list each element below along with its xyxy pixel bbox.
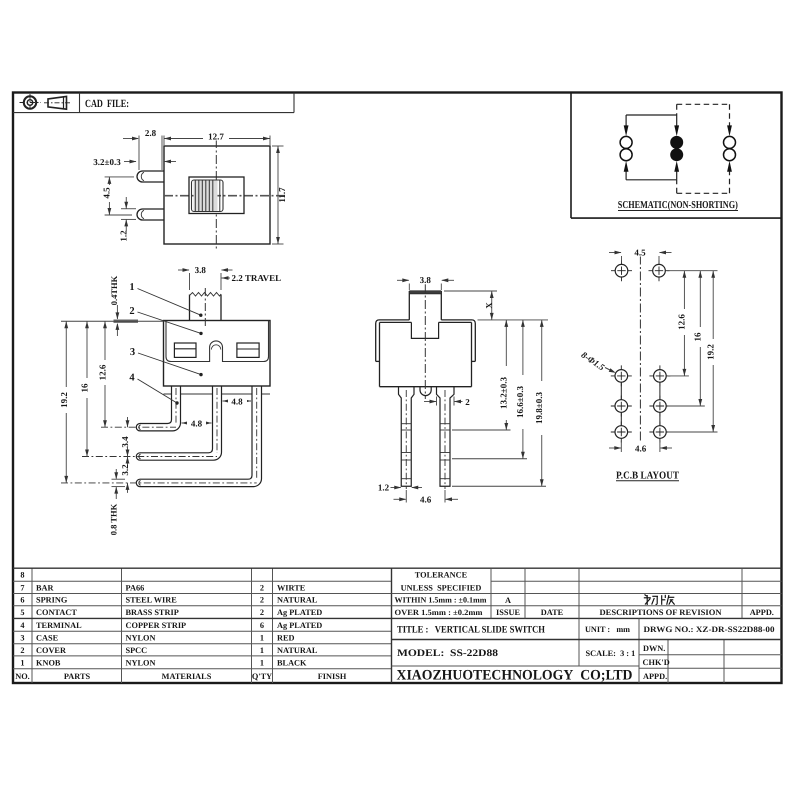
dimension 11.7: [272, 146, 284, 244]
svg-text:19.8±0.3: 19.8±0.3: [534, 392, 544, 424]
dimension 4.6 (front): [394, 490, 459, 503]
dimension 19.8±0.3: [541, 320, 543, 486]
left dims top extension line: [61, 320, 164, 322]
svg-text:2: 2: [129, 306, 134, 317]
top view lower terminal: [137, 209, 164, 220]
dimension 1.2 (top view): [121, 197, 136, 231]
svg-text:PARTS: PARTS: [64, 672, 91, 681]
svg-text:1.2: 1.2: [118, 230, 128, 242]
svg-text:2: 2: [260, 596, 264, 605]
svg-text:SCALE: 3 : 1: SCALE: 3 : 1: [586, 649, 636, 658]
front view inner body: [380, 322, 472, 386]
dimension 19.2 (pcb): [712, 271, 714, 432]
svg-text:1: 1: [260, 658, 264, 667]
parts table column NO: [15, 571, 30, 681]
svg-text:1: 1: [129, 282, 134, 293]
svg-text:4: 4: [129, 373, 135, 384]
svg-text:4: 4: [20, 621, 24, 630]
svg-text:TOLERANCE: TOLERANCE: [415, 571, 468, 580]
dimension 12.6 (side): [104, 321, 106, 427]
top view knob outer: [189, 177, 244, 214]
parts table column FINISH: [277, 583, 347, 680]
schematic arrows: [624, 125, 732, 171]
svg-text:NYLON: NYLON: [126, 634, 156, 643]
pcb hole D2: [649, 422, 670, 443]
third-angle projection symbol: cone: [44, 96, 72, 109]
svg-text:COPPER STRIP: COPPER STRIP: [126, 621, 187, 630]
body-top extension line (front): [478, 319, 549, 321]
schematic enclosure: [571, 93, 782, 219]
svg-text:NYLON: NYLON: [126, 658, 156, 667]
pcb hole A1: [611, 260, 632, 281]
svg-text:3.8: 3.8: [195, 265, 207, 275]
svg-text:TITLE : VERTICAL SLIDE SWITC: TITLE : VERTICAL SLIDE SWITCH: [397, 625, 545, 636]
svg-text:2.8: 2.8: [145, 128, 157, 138]
top view knob serrations: [195, 181, 220, 212]
svg-text:13.2±0.3: 13.2±0.3: [499, 377, 509, 409]
right pin bend marks: [440, 424, 450, 479]
dimension 2.2 TRAVEL: [222, 277, 231, 279]
svg-text:3.2: 3.2: [120, 464, 130, 476]
svg-text:A: A: [505, 596, 511, 605]
dimension 16 (pcb): [699, 271, 701, 406]
svg-text:11.7: 11.7: [277, 187, 287, 203]
svg-text:BLACK: BLACK: [277, 658, 307, 667]
top view horizontal centerline: [164, 195, 285, 197]
top view knob hatch fill: [194, 181, 218, 212]
svg-text:OVER 1.5mm : ±0.2mm: OVER 1.5mm : ±0.2mm: [395, 608, 483, 617]
svg-text:1: 1: [260, 634, 264, 643]
svg-text:4.8: 4.8: [231, 397, 243, 407]
front view right pin: [437, 387, 455, 487]
pcb hole C1: [611, 396, 632, 417]
dimension 2 (front pin width): [424, 397, 463, 406]
svg-text:STEEL WIRE: STEEL WIRE: [126, 596, 178, 605]
svg-text:12.6: 12.6: [97, 364, 107, 380]
svg-text:APPD.: APPD.: [750, 608, 774, 617]
svg-text:4.5: 4.5: [101, 187, 111, 199]
front view centerline: [424, 284, 426, 399]
svg-text:3: 3: [20, 634, 24, 643]
svg-text:12.6: 12.6: [677, 314, 687, 330]
side view cover inner outline: [166, 321, 269, 362]
svg-text:UNIT : mm: UNIT : mm: [585, 625, 630, 634]
pcb hole B2: [649, 365, 670, 386]
svg-text:WIRTE: WIRTE: [277, 583, 306, 592]
dimension 4.8 (upper, legs 2-3): [223, 400, 252, 402]
top view upper terminal: [137, 171, 164, 182]
parts table column MATERIALS: [126, 583, 212, 680]
top view knob inner: [192, 180, 224, 212]
初版 revision glyphs: [644, 595, 675, 606]
svg-text:WITHIN 1.5mm : ±0.1mm: WITHIN 1.5mm : ±0.1mm: [395, 596, 487, 605]
svg-text:3.8: 3.8: [420, 275, 432, 285]
svg-text:SPRING: SPRING: [36, 596, 68, 605]
svg-text:BRASS STRIP: BRASS STRIP: [126, 608, 179, 617]
svg-text:1: 1: [260, 646, 264, 655]
svg-text:3.2±0.3: 3.2±0.3: [93, 157, 121, 167]
schematic contact pair middle (closed): [670, 136, 683, 149]
svg-text:CHK'D: CHK'D: [643, 658, 670, 667]
side view terminal 2 (bends left, middle): [136, 386, 221, 460]
svg-text:APPD.: APPD.: [643, 672, 667, 681]
front view middle pin stub: [420, 387, 431, 396]
front view cover outer shell: [376, 320, 476, 362]
svg-text:COVER: COVER: [36, 646, 67, 655]
svg-text:6: 6: [260, 621, 264, 630]
dimension 4.8 (lower, legs 1-2): [182, 422, 212, 424]
pcb centerline: [639, 256, 641, 445]
svg-text:UNLESS SPECIFIED: UNLESS SPECIFIED: [401, 584, 482, 593]
svg-text:4.8: 4.8: [191, 419, 203, 429]
svg-text:NATURAL: NATURAL: [277, 646, 318, 655]
pcb hole C2: [649, 396, 670, 417]
dimension 12.6 (pcb): [683, 271, 685, 376]
svg-text:19.2: 19.2: [59, 392, 69, 408]
cover tab thick bar (0.4THK): [114, 320, 139, 323]
parts table column PARTS: [36, 583, 91, 680]
svg-text:DESCRIPTIONS OF REVISION: DESCRIPTIONS OF REVISION: [600, 608, 722, 617]
left pin bend marks: [401, 424, 411, 479]
schematic contact pair left (open): [620, 136, 632, 148]
side view body: [164, 321, 271, 387]
svg-text:16: 16: [79, 383, 89, 393]
svg-text:SPCC: SPCC: [126, 646, 148, 655]
svg-text:1: 1: [20, 658, 24, 667]
dimension 3.4 (side): [127, 417, 129, 467]
dimension 16.6±0.3: [522, 320, 524, 459]
terminal 2 centerlines: [216, 388, 218, 453]
svg-text:4.6: 4.6: [635, 443, 647, 453]
svg-text:BAR: BAR: [36, 583, 55, 592]
schematic solid net (left-middle): [626, 115, 677, 180]
svg-text:4.6: 4.6: [420, 494, 432, 504]
svg-text:CASE: CASE: [36, 634, 59, 643]
svg-text:1.2: 1.2: [378, 483, 390, 493]
dimension X: [444, 291, 497, 320]
dimension 19.2 (side): [65, 321, 67, 483]
side view stem centerline: [204, 288, 206, 327]
svg-text:3.4: 3.4: [120, 436, 130, 448]
svg-text:4.5: 4.5: [634, 248, 646, 258]
pcb hole A2: [649, 260, 670, 281]
dimension 13.2±0.3: [505, 320, 507, 430]
dimension 0.8 THK: [112, 469, 126, 499]
svg-text:19.2: 19.2: [706, 344, 716, 360]
side view terminal 1 (bends left, top): [136, 386, 180, 431]
terminal 1 centerlines: [175, 388, 177, 424]
svg-text:MATERIALS: MATERIALS: [162, 672, 212, 681]
svg-text:NO.: NO.: [15, 672, 30, 681]
title block grid: [392, 568, 782, 683]
svg-text:DWN.: DWN.: [643, 644, 665, 653]
left pin centerline: [405, 390, 407, 489]
front view left pin: [399, 387, 415, 487]
dimension 3.8 (side stem): [178, 270, 233, 290]
svg-text:3: 3: [130, 347, 135, 358]
svg-text:SCHEMATIC(NON-SHORTING): SCHEMATIC(NON-SHORTING): [618, 200, 738, 211]
svg-text:CAD FILE:: CAD FILE:: [85, 98, 129, 110]
svg-text:KNOB: KNOB: [36, 658, 61, 667]
dimension 16 (side): [86, 321, 88, 456]
side view right window: [237, 343, 259, 357]
side view left window: [174, 343, 196, 357]
svg-text:PA66: PA66: [126, 583, 145, 592]
svg-text:MODEL: SS-22D88: MODEL: SS-22D88: [397, 648, 498, 659]
top view vertical centerline: [215, 139, 217, 251]
pcb vertical connect lines between lower holes: [621, 382, 660, 426]
pcb hole B1: [611, 365, 632, 386]
side view stem break line: [190, 293, 222, 297]
parts table grid: [13, 568, 392, 683]
svg-text:8: 8: [20, 571, 24, 580]
svg-text:12.7: 12.7: [208, 132, 224, 142]
svg-text:FINISH: FINISH: [318, 672, 347, 681]
dimension 3.2 (side): [127, 447, 129, 493]
svg-text:7: 7: [20, 583, 24, 592]
side view stem sides: [190, 295, 222, 321]
schematic contact pair right (open): [724, 136, 736, 148]
svg-text:Ag PLATED: Ag PLATED: [277, 621, 322, 630]
svg-text:16.6±0.3: 16.6±0.3: [515, 386, 525, 418]
dimension 0.4THK: [116, 305, 118, 336]
svg-text:NATURAL: NATURAL: [277, 596, 318, 605]
svg-text:2: 2: [260, 583, 264, 592]
svg-text:P.C.B LAYOUT: P.C.B LAYOUT: [616, 471, 679, 482]
right pin centerline: [444, 390, 446, 489]
svg-text:Q'TY: Q'TY: [252, 672, 272, 681]
top view body: [164, 146, 270, 244]
front view knob notch: [411, 322, 438, 338]
svg-text:0.4THK: 0.4THK: [109, 275, 119, 305]
svg-text:CONTACT: CONTACT: [36, 608, 77, 617]
pcb top extension line: [667, 270, 718, 272]
parts table column QTY: [252, 583, 272, 680]
border frame: [13, 93, 782, 684]
svg-text:2.2 TRAVEL: 2.2 TRAVEL: [232, 273, 282, 283]
dimension 2.8: [123, 136, 270, 171]
dimension 4.6 (pcb): [609, 441, 672, 453]
svg-text:ISSUE: ISSUE: [496, 608, 520, 617]
svg-text:2: 2: [465, 397, 470, 407]
svg-text:5: 5: [20, 608, 24, 617]
third-angle projection symbol: target circle: [20, 94, 42, 112]
dimension 12.7: [164, 138, 270, 140]
pcb hole D1: [611, 422, 632, 443]
CAD FILE title bar: [13, 93, 294, 113]
side view terminal 3 (bends left, bottom): [136, 386, 261, 487]
dimension 3.8 (front stem): [397, 280, 454, 290]
svg-text:TERMINAL: TERMINAL: [36, 621, 82, 630]
schematic dashed box: [677, 104, 730, 193]
svg-text:XIAOZHUOTECHNOLOGY CO;LTD: XIAOZHUOTECHNOLOGY CO;LTD: [397, 668, 633, 684]
svg-text:2: 2: [20, 646, 24, 655]
side view base line with leg slots: [164, 393, 271, 395]
svg-text:RED: RED: [277, 634, 295, 643]
svg-text:0.8 THK: 0.8 THK: [109, 503, 119, 535]
svg-text:Ag PLATED: Ag PLATED: [277, 608, 322, 617]
side view inner arch line: [211, 345, 220, 350]
svg-text:16: 16: [693, 332, 703, 342]
svg-text:2: 2: [260, 608, 264, 617]
dimension 4.5 (pcb): [609, 253, 672, 263]
dimension 4.5: [105, 177, 134, 215]
svg-text:6: 6: [20, 596, 24, 605]
svg-text:X: X: [484, 302, 494, 309]
svg-text:DRWG NO.: XZ-DR-SS22D88-00: DRWG NO.: XZ-DR-SS22D88-00: [644, 625, 775, 634]
terminal 3 centerlines: [256, 388, 258, 480]
svg-text:DATE: DATE: [541, 608, 564, 617]
front view stem: [409, 291, 441, 320]
